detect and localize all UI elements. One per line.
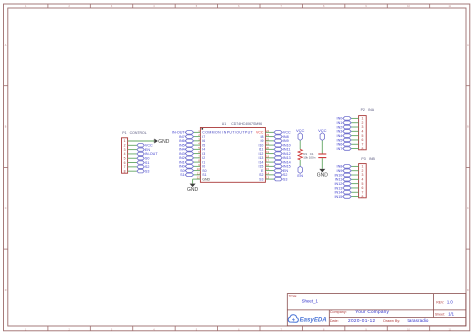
svg-text:P1: P1 (122, 131, 126, 135)
svg-text:C: C (5, 207, 7, 210)
svg-text:8: 8 (361, 195, 363, 199)
svg-text:IN7: IN7 (337, 147, 343, 151)
svg-text:100n: 100n (309, 156, 316, 160)
svg-text:S1: S1 (180, 173, 185, 177)
svg-text:TITLE:: TITLE: (289, 294, 298, 298)
svg-text:Drawn By:: Drawn By: (383, 319, 400, 323)
svg-text:EasyEDA: EasyEDA (300, 316, 327, 323)
svg-text:1.0: 1.0 (447, 300, 453, 305)
svg-text:2020-01-12: 2020-01-12 (348, 318, 376, 323)
svg-text:COMMON INPUT/OUTPUT: COMMON INPUT/OUTPUT (202, 131, 253, 135)
svg-text:C: C (467, 207, 469, 210)
svg-text:tarasradio: tarasradio (408, 318, 429, 323)
svg-text:Date:: Date: (330, 319, 339, 323)
svg-text:Company:: Company: (330, 310, 347, 314)
svg-text:S3: S3 (283, 177, 288, 181)
svg-text:8: 8 (361, 147, 363, 151)
svg-text:P2: P2 (361, 108, 365, 112)
svg-text:P3: P3 (361, 157, 365, 161)
svg-text:Sheet_1: Sheet_1 (302, 299, 319, 304)
svg-text:GND: GND (187, 187, 199, 193)
svg-text:CD74HC4067SM96: CD74HC4067SM96 (231, 122, 262, 126)
svg-text:GND: GND (317, 172, 329, 178)
svg-text:VCC: VCC (318, 128, 327, 133)
svg-text:D: D (5, 289, 7, 292)
svg-text:VCC: VCC (296, 128, 305, 133)
svg-text:GND: GND (202, 177, 210, 181)
svg-text:REV:: REV: (436, 301, 444, 305)
svg-text:GND: GND (158, 139, 170, 145)
svg-text:INB: INB (369, 157, 376, 161)
svg-text:1/1: 1/1 (448, 312, 454, 317)
svg-text:8: 8 (124, 169, 126, 173)
svg-text:S3: S3 (259, 177, 263, 181)
svg-text:U1: U1 (222, 122, 227, 126)
svg-text:IN15: IN15 (335, 195, 343, 199)
svg-text:S3: S3 (145, 169, 150, 173)
svg-text:INA: INA (368, 108, 375, 112)
svg-text:D: D (467, 289, 469, 292)
svg-text:EN: EN (297, 173, 303, 178)
svg-text:CONTROL: CONTROL (130, 131, 147, 135)
svg-text:Sheet:: Sheet: (435, 313, 445, 317)
svg-text:Your Company: Your Company (355, 309, 389, 314)
